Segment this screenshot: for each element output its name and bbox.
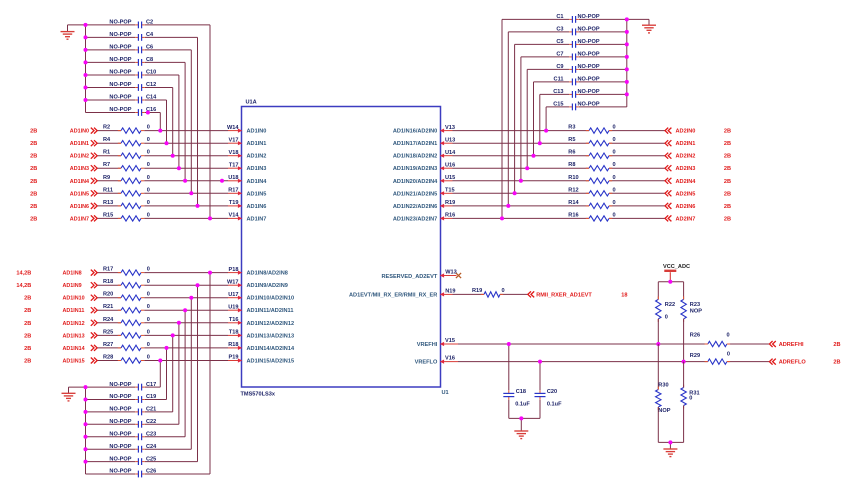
svg-text:NOP: NOP <box>658 408 670 414</box>
svg-text:C12: C12 <box>146 82 156 88</box>
svg-text:AD1IN14/AD2IN14: AD1IN14/AD2IN14 <box>247 346 295 352</box>
svg-text:C8: C8 <box>146 57 153 63</box>
wire VREFLO to R31 <box>683 362 685 388</box>
junction <box>544 129 548 133</box>
node AD1IN7 off-page <box>30 215 97 222</box>
svg-text:R21: R21 <box>103 304 113 310</box>
node AD2IN4 off-page <box>665 178 731 185</box>
pin R18 stub <box>228 347 242 349</box>
svg-text:AD1IN13/AD2IN13: AD1IN13/AD2IN13 <box>247 333 295 339</box>
resistor R2 <box>103 125 150 134</box>
svg-text:NO-POP: NO-POP <box>109 469 131 475</box>
pin U19 stub <box>228 309 242 311</box>
resistor R9 <box>103 175 150 184</box>
svg-text:NO-POP: NO-POP <box>109 419 131 425</box>
no-connect X <box>456 273 461 278</box>
junction <box>507 342 511 346</box>
svg-text:VREFLO: VREFLO <box>415 360 438 366</box>
svg-text:NO-POP: NO-POP <box>109 70 131 76</box>
wire cap C14 net <box>86 99 136 101</box>
wire cap C1 net <box>579 18 627 20</box>
svg-text:0: 0 <box>612 187 615 193</box>
svg-text:R20: R20 <box>103 292 113 298</box>
svg-text:ADREFHI: ADREFHI <box>779 342 804 348</box>
junction <box>625 80 629 84</box>
junction <box>538 141 542 145</box>
svg-text:AD1IN11: AD1IN11 <box>63 308 85 314</box>
junction <box>189 296 193 300</box>
junction <box>625 17 629 21</box>
svg-text:R23: R23 <box>690 302 700 308</box>
wire cap C13 net <box>579 93 627 95</box>
capacitor C14 <box>109 95 157 104</box>
wire net AD2IN0 <box>453 130 590 132</box>
svg-text:W14: W14 <box>227 125 239 131</box>
svg-text:C7: C7 <box>556 52 563 58</box>
svg-text:C26: C26 <box>146 469 156 475</box>
svg-text:AD1IN0: AD1IN0 <box>70 129 89 135</box>
capacitor C26 <box>109 469 156 478</box>
svg-text:0: 0 <box>612 200 615 206</box>
wire net AD2IN7 <box>453 217 590 219</box>
pin U16 stub <box>441 167 453 169</box>
capacitor C16 <box>109 107 156 116</box>
svg-text:AD1IN11/AD2IN11: AD1IN11/AD2IN11 <box>247 308 294 314</box>
svg-text:R13: R13 <box>103 200 113 206</box>
resistor R19 <box>472 288 505 297</box>
svg-text:C6: C6 <box>146 45 153 51</box>
svg-text:0: 0 <box>147 317 150 323</box>
svg-text:U17: U17 <box>228 292 238 298</box>
wire cap C11 net <box>579 81 627 83</box>
wire cap C17 net <box>86 386 136 388</box>
svg-text:2B: 2B <box>30 129 37 135</box>
svg-text:NO-POP: NO-POP <box>109 32 131 38</box>
svg-text:C2: C2 <box>146 20 153 26</box>
svg-text:AD1IN8/AD2IN8: AD1IN8/AD2IN8 <box>247 271 288 277</box>
svg-text:V15: V15 <box>445 338 455 344</box>
node AD2IN2 off-page <box>665 153 731 160</box>
resistor R14 <box>568 200 615 209</box>
node AD1IN14 off-page <box>24 345 97 352</box>
pin V15 stub <box>441 343 459 345</box>
resistor R31 <box>681 385 700 409</box>
wire net AD1IN5 <box>97 192 121 194</box>
svg-text:0: 0 <box>726 333 729 339</box>
svg-text:2B: 2B <box>724 141 731 147</box>
wire ground bus top-left bank <box>85 25 87 113</box>
svg-text:AD1IN12: AD1IN12 <box>63 321 85 327</box>
junction <box>189 191 193 195</box>
svg-text:R6: R6 <box>568 150 575 156</box>
svg-text:U15: U15 <box>445 175 455 181</box>
svg-text:C15: C15 <box>553 102 563 108</box>
svg-text:NO-POP: NO-POP <box>578 39 600 45</box>
svg-text:0: 0 <box>147 267 150 273</box>
junction <box>513 191 517 195</box>
resistor R12 <box>568 187 615 196</box>
node AD2IN7 off-page <box>665 215 731 222</box>
capacitor C12 <box>109 82 156 91</box>
node AD1IN11 off-page <box>24 307 97 314</box>
svg-text:NO-POP: NO-POP <box>109 394 131 400</box>
resistor R11 <box>103 187 150 196</box>
svg-text:0: 0 <box>612 175 615 181</box>
wire net AD1IN3 <box>97 167 121 169</box>
wire net AD1IN9 <box>97 284 121 286</box>
svg-text:U18: U18 <box>228 175 238 181</box>
svg-text:AD1IN5: AD1IN5 <box>247 191 267 197</box>
svg-text:R1: R1 <box>103 150 110 156</box>
svg-text:0.1uF: 0.1uF <box>515 401 530 407</box>
svg-text:AD1IN0: AD1IN0 <box>247 129 267 135</box>
svg-text:V14: V14 <box>229 213 240 219</box>
svg-text:TMS570LS3x: TMS570LS3x <box>241 391 276 397</box>
junction <box>84 447 88 451</box>
svg-text:V16: V16 <box>445 356 455 362</box>
node AD1IN15 off-page <box>24 358 97 365</box>
resistor R13 <box>103 200 150 209</box>
svg-text:C10: C10 <box>146 70 156 76</box>
svg-text:AD2IN0: AD2IN0 <box>676 129 696 135</box>
junction <box>177 321 181 325</box>
wire R23 to VREFLO <box>683 319 685 362</box>
svg-text:AD1IN13: AD1IN13 <box>63 333 85 339</box>
junction <box>84 98 88 102</box>
junction <box>532 154 536 158</box>
svg-text:AD2IN6: AD2IN6 <box>676 204 696 210</box>
node AD2IN6 off-page <box>665 203 731 210</box>
wire cap C2 net <box>86 24 136 26</box>
svg-text:AD1IN12/AD2IN12: AD1IN12/AD2IN12 <box>247 321 295 327</box>
svg-text:2B: 2B <box>724 179 731 185</box>
pin U13 stub <box>441 142 453 144</box>
capacitor C3 <box>556 27 599 36</box>
wire net AD1IN4 <box>97 180 121 182</box>
svg-text:NO-POP: NO-POP <box>109 444 131 450</box>
junction <box>625 30 629 34</box>
svg-text:AD1IN7: AD1IN7 <box>70 216 89 222</box>
resistor R22 <box>656 296 675 322</box>
svg-text:RESERVED_AD2EVT: RESERVED_AD2EVT <box>381 274 437 280</box>
resistor R27 <box>103 342 150 351</box>
svg-text:AD1IN20/AD2IN4: AD1IN20/AD2IN4 <box>393 179 438 185</box>
node RMII_RXER_AD1EVT off-page <box>528 291 628 298</box>
wire net AD1IN2 <box>97 155 121 157</box>
svg-text:0: 0 <box>501 288 504 294</box>
resistor R29 <box>690 352 730 365</box>
node AD1IN9 off-page <box>16 282 97 289</box>
svg-text:V18: V18 <box>229 150 239 156</box>
pin T17 stub <box>228 167 242 169</box>
wire net AD1IN7 <box>97 217 121 219</box>
wire cap C24 net <box>86 448 136 450</box>
svg-text:C9: C9 <box>556 64 563 70</box>
capacitor C23 <box>109 432 156 441</box>
capacitor C8 <box>109 57 153 66</box>
wire vcc top <box>658 281 683 283</box>
node AD1IN0 off-page <box>30 128 97 135</box>
svg-text:0: 0 <box>147 279 150 285</box>
wire net AD1IN15 <box>97 360 121 362</box>
capacitor C1 <box>556 14 599 23</box>
svg-text:0: 0 <box>147 212 150 218</box>
capacitor C22 <box>109 419 156 428</box>
wire net AD1IN12 <box>97 322 121 324</box>
wire ground bus bottom-left bank <box>85 387 87 474</box>
junction <box>625 67 629 71</box>
junction <box>208 216 212 220</box>
svg-text:AD1IN2: AD1IN2 <box>247 154 267 160</box>
junction <box>208 271 212 275</box>
svg-text:2B: 2B <box>30 141 37 147</box>
svg-text:2B: 2B <box>724 154 731 160</box>
node AD2IN3 off-page <box>665 165 731 172</box>
node AD1IN6 off-page <box>30 203 97 210</box>
svg-text:C17: C17 <box>146 382 156 388</box>
svg-text:0: 0 <box>612 125 615 131</box>
svg-text:R18: R18 <box>103 279 113 285</box>
junction <box>177 166 181 170</box>
svg-text:18: 18 <box>621 292 627 298</box>
junction <box>196 283 200 287</box>
svg-text:NOP: NOP <box>690 308 702 314</box>
svg-text:2B: 2B <box>24 346 31 352</box>
svg-text:0: 0 <box>612 150 615 156</box>
wire cap C8 net <box>86 61 136 63</box>
junction <box>84 422 88 426</box>
capacitor C9 <box>556 64 599 73</box>
svg-text:AD2IN2: AD2IN2 <box>676 154 696 160</box>
svg-text:AD1IN5: AD1IN5 <box>70 191 89 197</box>
wire cap C25 net <box>86 461 136 463</box>
svg-text:AD1IN15/AD2IN15: AD1IN15/AD2IN15 <box>247 359 295 365</box>
svg-text:U14: U14 <box>445 150 456 156</box>
capacitor C24 <box>109 444 157 453</box>
resistor R21 <box>103 304 150 313</box>
wire net AD1IN14 <box>97 347 121 349</box>
svg-text:2B: 2B <box>833 360 840 366</box>
junction <box>506 204 510 208</box>
svg-text:NO-POP: NO-POP <box>578 77 600 83</box>
capacitor C18 <box>503 389 530 407</box>
junction <box>183 179 187 183</box>
svg-text:ADREFLO: ADREFLO <box>779 360 807 366</box>
node AD1IN10 off-page <box>24 295 97 302</box>
resistor R28 <box>103 355 150 364</box>
wire cap C9 net <box>579 68 627 70</box>
resistor R20 <box>103 292 150 301</box>
wire cap C26 net <box>86 473 136 475</box>
svg-text:C13: C13 <box>553 89 563 95</box>
svg-text:0: 0 <box>147 175 150 181</box>
svg-text:NO-POP: NO-POP <box>109 456 131 462</box>
junction <box>525 166 529 170</box>
resistor R15 <box>103 212 150 221</box>
resistor R10 <box>568 175 615 184</box>
capacitor C4 <box>109 32 154 41</box>
resistor R6 <box>568 150 615 159</box>
junction <box>158 129 162 133</box>
svg-text:R16: R16 <box>445 213 455 219</box>
svg-text:2B: 2B <box>24 359 31 365</box>
wire C18 branch <box>508 344 510 390</box>
pin V16 stub <box>441 361 459 363</box>
svg-text:AD1IN18/AD2IN2: AD1IN18/AD2IN2 <box>393 154 437 160</box>
capacitor C10 <box>109 70 156 79</box>
wire net AD2IN3 <box>453 167 590 169</box>
svg-text:R10: R10 <box>568 175 578 181</box>
junction <box>668 440 672 444</box>
wire cap C23 net <box>86 436 136 438</box>
svg-text:2B: 2B <box>724 129 731 135</box>
svg-text:AD1IN17/AD2IN1: AD1IN17/AD2IN1 <box>393 141 437 147</box>
svg-text:R24: R24 <box>103 317 114 323</box>
svg-text:2B: 2B <box>833 342 840 348</box>
svg-text:0: 0 <box>147 292 150 298</box>
wire VREFHI to R30 <box>657 344 659 390</box>
svg-text:R15: R15 <box>103 212 113 218</box>
svg-text:NO-POP: NO-POP <box>109 57 131 63</box>
capacitor C25 <box>109 456 156 465</box>
pin N19 stub <box>441 293 453 295</box>
wire net AD1IN0 <box>97 130 121 132</box>
svg-text:AD1IN10: AD1IN10 <box>63 296 85 302</box>
pin T18 stub <box>228 334 242 336</box>
svg-text:C25: C25 <box>146 456 156 462</box>
ground <box>62 392 76 394</box>
wire net AD1IN13 <box>97 334 121 336</box>
svg-text:NO-POP: NO-POP <box>578 52 600 58</box>
wire C20 branch <box>539 362 541 391</box>
svg-text:T19: T19 <box>229 200 239 206</box>
resistor R16 <box>568 212 615 221</box>
pin R17 stub <box>228 192 242 194</box>
ground <box>514 430 528 432</box>
svg-text:0: 0 <box>612 162 615 168</box>
svg-text:NO-POP: NO-POP <box>109 45 131 51</box>
junction extra U18 row <box>220 179 224 183</box>
pin V14 stub <box>228 217 242 219</box>
svg-text:0: 0 <box>147 304 150 310</box>
svg-text:AD1IN6: AD1IN6 <box>70 204 89 210</box>
junction <box>625 42 629 46</box>
pin P19 stub <box>228 360 242 362</box>
svg-text:2B: 2B <box>24 321 31 327</box>
svg-text:2B: 2B <box>30 166 37 172</box>
wire cap C22 net <box>86 423 136 425</box>
svg-text:R9: R9 <box>103 175 110 181</box>
wire net VREFLO <box>458 361 708 363</box>
junction <box>519 416 523 420</box>
resistor R23 <box>681 296 702 322</box>
svg-text:NO-POP: NO-POP <box>109 432 131 438</box>
junction <box>84 35 88 39</box>
svg-text:2B: 2B <box>724 216 731 222</box>
ground <box>642 24 656 26</box>
node AD2IN0 off-page <box>665 128 731 135</box>
svg-text:W17: W17 <box>227 279 239 285</box>
pin W14 stub <box>228 130 242 132</box>
resistor R5 <box>568 137 615 146</box>
svg-text:C4: C4 <box>146 32 154 38</box>
node ADREFLO off-page <box>769 359 840 366</box>
svg-text:C14: C14 <box>146 95 157 101</box>
wire cap C5 net <box>579 43 627 45</box>
svg-text:AD1IN14: AD1IN14 <box>63 346 85 352</box>
wire net AD1IN8 <box>97 272 121 274</box>
node AD1IN2 off-page <box>30 153 97 160</box>
svg-text:AD1IN19/AD2IN3: AD1IN19/AD2IN3 <box>393 166 437 172</box>
junction <box>165 141 169 145</box>
svg-text:0: 0 <box>147 162 150 168</box>
svg-text:2B: 2B <box>30 179 37 185</box>
svg-text:AD1IN9/AD2IN9: AD1IN9/AD2IN9 <box>247 283 288 289</box>
junction <box>519 179 523 183</box>
junction <box>682 360 686 364</box>
wire net AD2IN6 <box>453 205 590 207</box>
resistor R18 <box>103 279 150 288</box>
svg-text:2B: 2B <box>30 191 37 197</box>
wire net AD2IN5 <box>453 192 590 194</box>
resistor R17 <box>103 267 150 276</box>
svg-text:14,2B: 14,2B <box>16 271 31 277</box>
pin W17 stub <box>228 284 242 286</box>
junction <box>171 154 175 158</box>
svg-text:AD1EVT/MII_RX_ER/RMII_RX_ER: AD1EVT/MII_RX_ER/RMII_RX_ER <box>349 293 437 299</box>
svg-text:R4: R4 <box>103 137 111 143</box>
svg-text:AD1IN1: AD1IN1 <box>247 141 267 147</box>
junction <box>500 216 504 220</box>
junction <box>84 23 88 27</box>
svg-text:P19: P19 <box>229 355 239 361</box>
svg-text:R19: R19 <box>445 200 455 206</box>
pin W13 stub <box>441 275 457 277</box>
svg-text:2B: 2B <box>30 154 37 160</box>
svg-text:C23: C23 <box>146 432 156 438</box>
svg-text:RMII_RXER_AD1EVT: RMII_RXER_AD1EVT <box>536 292 592 298</box>
node AD1IN8 off-page <box>16 270 97 277</box>
svg-text:U16: U16 <box>445 162 455 168</box>
node AD1IN1 off-page <box>30 140 97 147</box>
svg-text:R22: R22 <box>665 302 675 308</box>
wire net AD2IN4 <box>453 180 590 182</box>
capacitor C15 <box>553 102 600 111</box>
capacitor C21 <box>109 407 156 416</box>
svg-text:C22: C22 <box>146 419 156 425</box>
wire cap C12 net <box>86 87 136 89</box>
node AD1IN3 off-page <box>30 165 97 172</box>
svg-text:AD1IN23/AD2IN7: AD1IN23/AD2IN7 <box>393 216 437 222</box>
svg-text:NO-POP: NO-POP <box>109 20 131 26</box>
svg-text:C3: C3 <box>556 27 563 33</box>
svg-text:2B: 2B <box>724 204 731 210</box>
svg-text:U1A: U1A <box>246 100 257 106</box>
svg-text:R2: R2 <box>103 125 110 131</box>
svg-text:T16: T16 <box>229 317 239 323</box>
svg-text:R14: R14 <box>568 200 579 206</box>
svg-text:NO-POP: NO-POP <box>578 89 600 95</box>
svg-text:AD1IN8: AD1IN8 <box>63 271 82 277</box>
svg-text:0: 0 <box>147 187 150 193</box>
junction <box>84 410 88 414</box>
svg-text:AD1IN3: AD1IN3 <box>70 166 89 172</box>
junction <box>146 111 150 115</box>
svg-text:AD1IN21/AD2IN5: AD1IN21/AD2IN5 <box>393 191 437 197</box>
wire net AD2IN1 <box>453 142 590 144</box>
junction <box>84 435 88 439</box>
svg-text:2B: 2B <box>30 216 37 222</box>
